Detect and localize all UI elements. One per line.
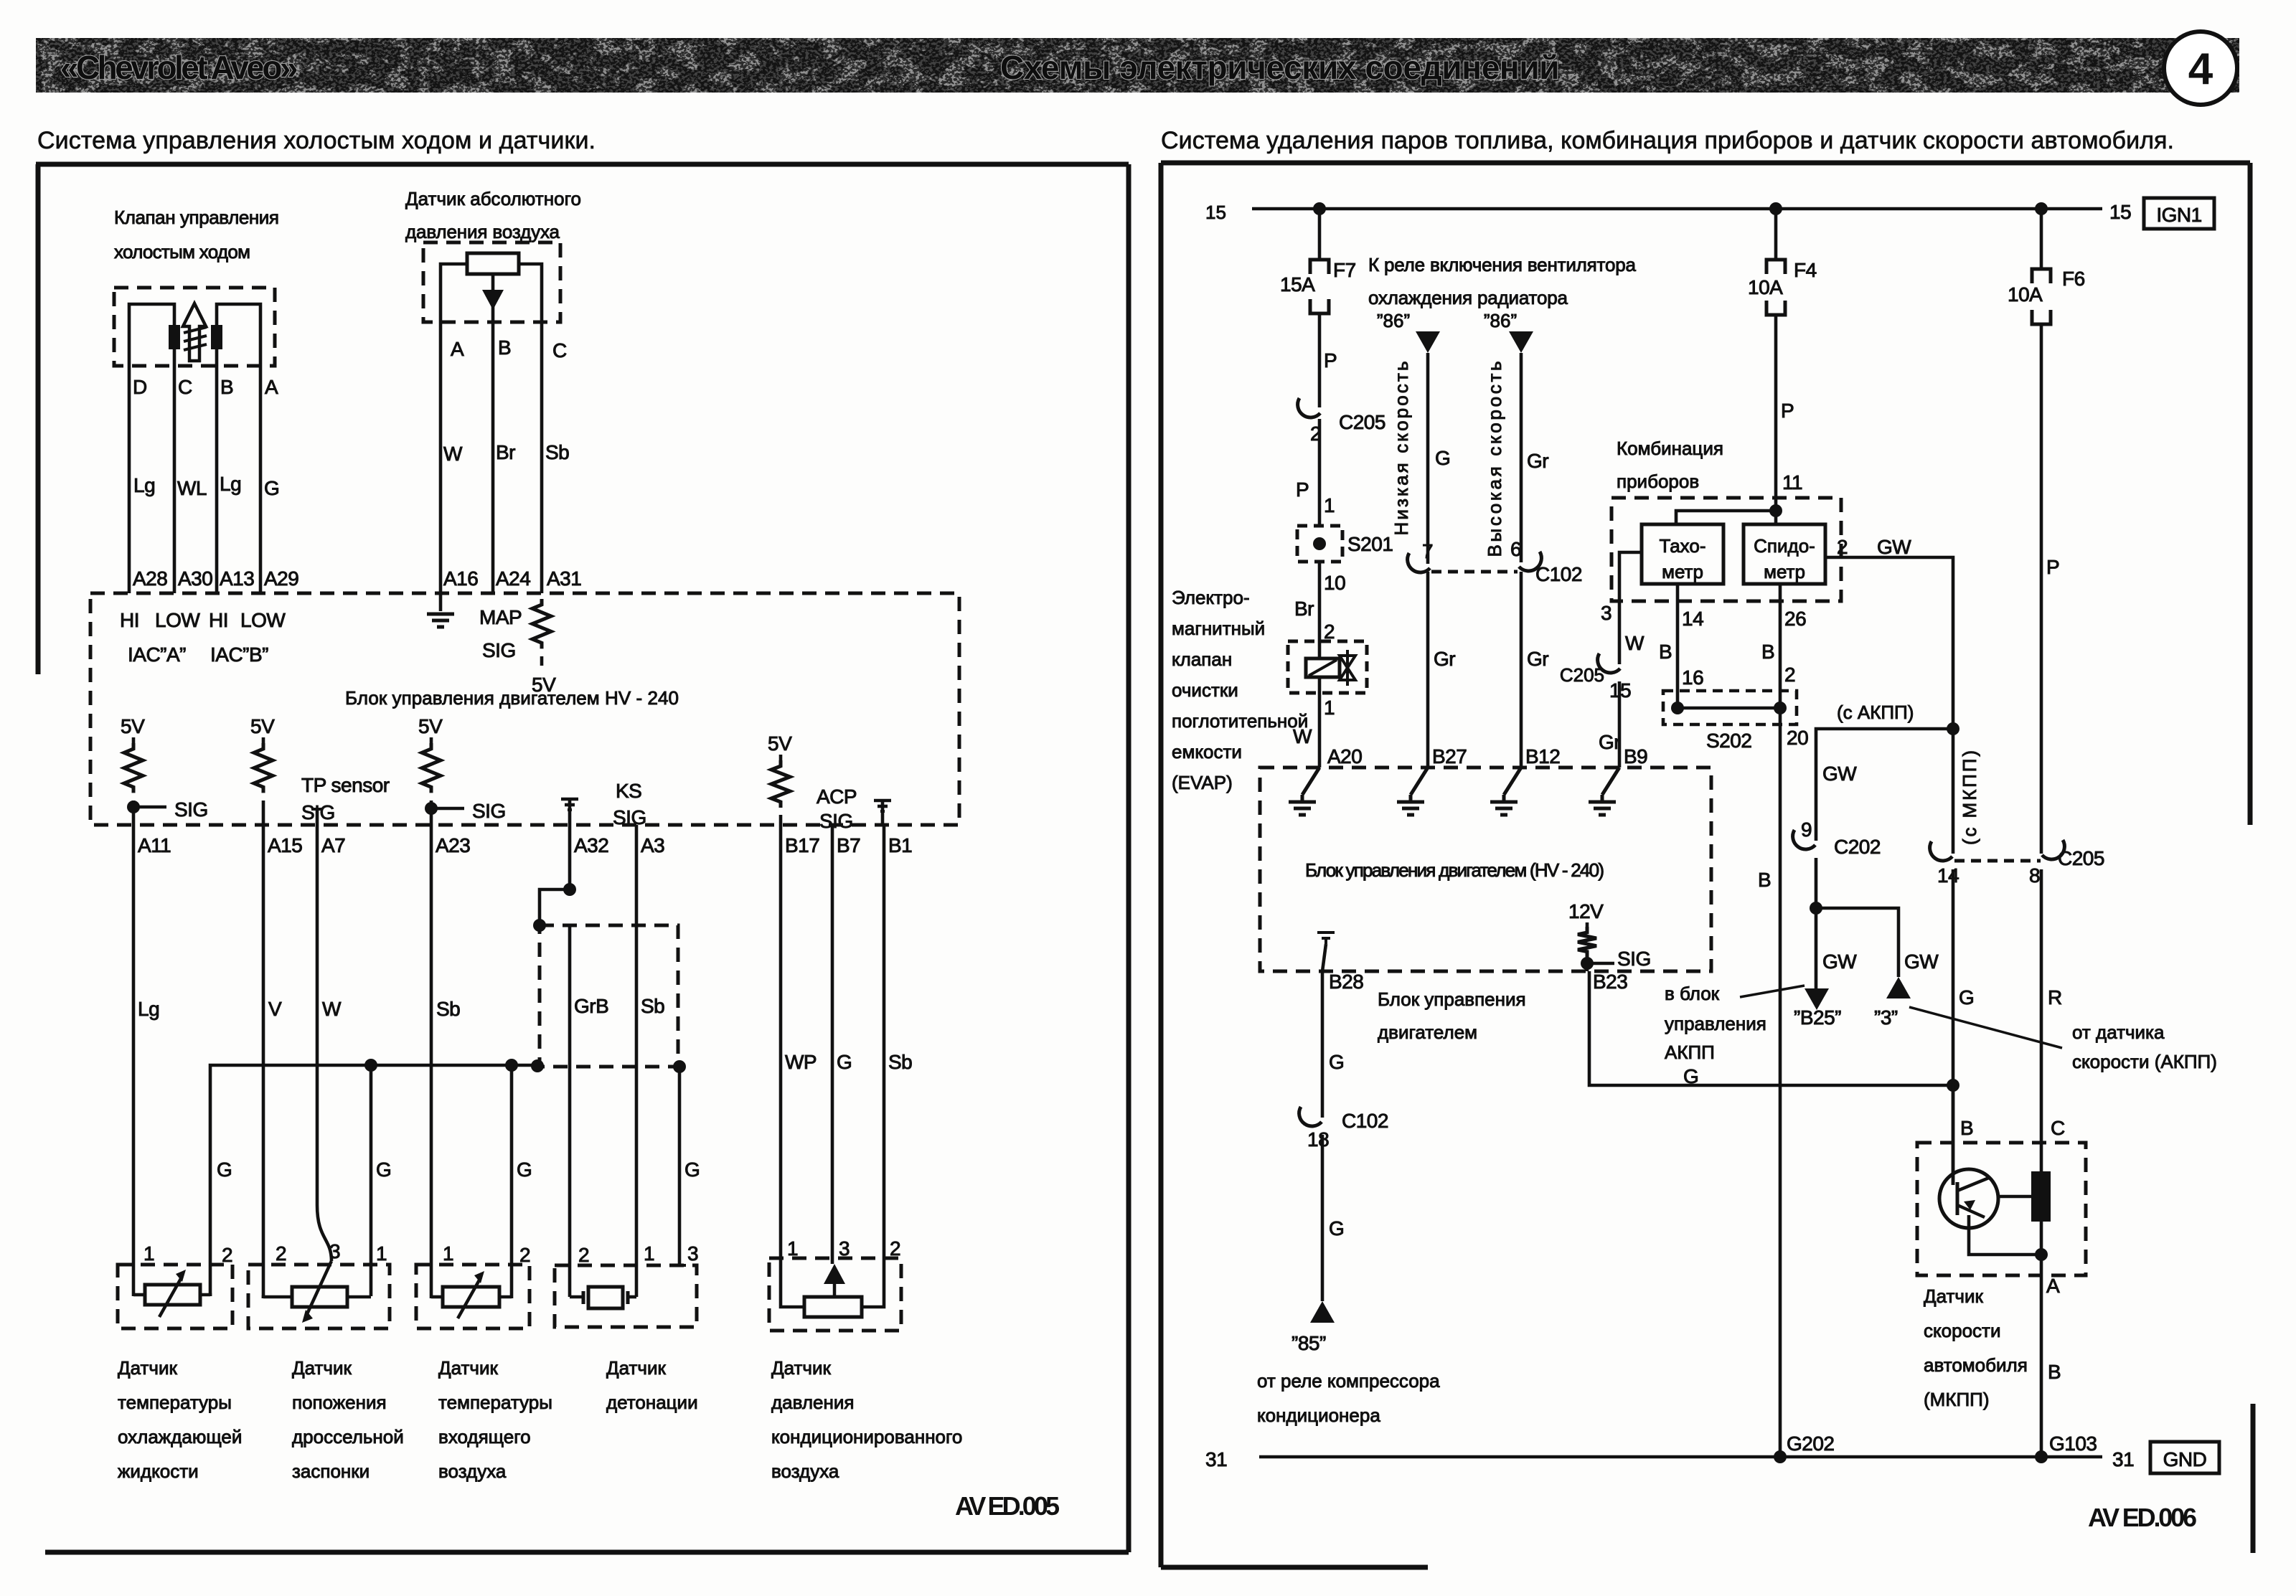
svg-text:Lg: Lg xyxy=(220,473,241,495)
wire G to TP1 xyxy=(370,1065,373,1296)
KS shield box xyxy=(540,925,678,1067)
ground at B1 xyxy=(874,799,891,803)
resistor at A31 xyxy=(532,599,551,648)
wire C202-dn xyxy=(1815,858,1818,908)
sensor ground bus xyxy=(210,1065,537,1296)
wire tacho 3 xyxy=(1619,552,1642,664)
svg-text:Тахо-: Тахо- xyxy=(1660,535,1706,557)
svg-text:2: 2 xyxy=(276,1242,286,1265)
svg-text:Блок управления двигателем HV: Блок управления двигателем HV - 240 xyxy=(345,687,679,709)
svg-text:A13: A13 xyxy=(220,567,254,590)
svg-text:1: 1 xyxy=(1324,697,1335,719)
svg-text:жидкости: жидкости xyxy=(118,1460,199,1482)
svg-text:11: 11 xyxy=(1782,471,1802,494)
junction B23-G xyxy=(1947,1079,1959,1092)
svg-text:GND: GND xyxy=(2163,1448,2207,1470)
svg-text:3: 3 xyxy=(329,1240,340,1262)
svg-text:5V: 5V xyxy=(418,715,443,737)
svg-text:B12: B12 xyxy=(1525,745,1560,768)
svg-text:IGN1: IGN1 xyxy=(2156,204,2201,226)
svg-text:”86”: ”86” xyxy=(1377,310,1410,331)
wire 6-B12 xyxy=(1520,572,1523,768)
svg-text:WP: WP xyxy=(785,1051,817,1073)
wire B17-ACP xyxy=(779,825,783,1306)
svg-text:воздуха: воздуха xyxy=(771,1460,839,1482)
svg-text:C102: C102 xyxy=(1535,563,1582,585)
ACP resistor xyxy=(804,1297,862,1317)
MAP wire B arrow xyxy=(491,274,495,322)
svg-text:B: B xyxy=(1758,869,1771,891)
wire to F4 xyxy=(1774,209,1778,260)
svg-text:C102: C102 xyxy=(1342,1110,1388,1132)
svg-text:C: C xyxy=(552,339,567,362)
junction F7 xyxy=(1313,202,1326,215)
svg-text:WL: WL xyxy=(177,477,207,499)
splice S201 xyxy=(1297,526,1342,562)
svg-text:8: 8 xyxy=(2029,864,2040,887)
svg-text:SIG: SIG xyxy=(482,639,516,661)
svg-text:Датчик: Датчик xyxy=(606,1357,666,1379)
junction KS G xyxy=(673,1060,686,1073)
SIG dot A23 xyxy=(425,802,438,815)
svg-text:GW: GW xyxy=(1822,762,1857,785)
MAP wire C xyxy=(519,264,542,322)
svg-text:давления воздуха: давления воздуха xyxy=(405,221,560,242)
svg-text:18: 18 xyxy=(1307,1128,1329,1151)
svg-text:B28: B28 xyxy=(1329,971,1363,993)
svg-text:Br: Br xyxy=(496,441,515,463)
right frame bottom xyxy=(1161,1565,1428,1570)
svg-text:входящего: входящего xyxy=(438,1426,531,1448)
wire B1-ACP xyxy=(883,825,886,1306)
svg-text:A23: A23 xyxy=(436,834,470,856)
wire tacho 14 xyxy=(1676,584,1680,708)
header band xyxy=(36,38,2239,93)
wire EVAP-A20 xyxy=(1318,677,1322,768)
svg-text:G: G xyxy=(517,1158,532,1181)
wire 11-speedo xyxy=(1774,511,1778,524)
wire F4-11 xyxy=(1774,315,1778,511)
KS element xyxy=(588,1287,623,1308)
fuse F7 xyxy=(1310,260,1329,274)
junction F4 xyxy=(1769,202,1782,215)
ground at A16 xyxy=(439,593,443,611)
CTS box xyxy=(118,1265,232,1328)
svg-text:детонации: детонации xyxy=(606,1392,698,1413)
cluster box xyxy=(1612,498,1841,601)
resistor at A23 xyxy=(430,737,433,743)
arrow B25 xyxy=(1805,988,1829,1010)
ECU HV-240 box xyxy=(90,593,959,825)
IAT wire right xyxy=(499,1295,512,1299)
wire A32 jog xyxy=(540,825,570,925)
wire GW B25 xyxy=(1815,908,1818,988)
svg-text:К реле включения вентилятора: К реле включения вентилятора xyxy=(1368,254,1637,275)
svg-text:SIG: SIG xyxy=(1617,948,1651,970)
ACP wire left xyxy=(781,1306,804,1307)
svg-text:2: 2 xyxy=(222,1244,232,1266)
svg-text:AV ED.005: AV ED.005 xyxy=(955,1491,1060,1521)
svg-text:B9: B9 xyxy=(1624,745,1647,768)
wire A7-TP wiper xyxy=(317,825,331,1261)
wire C-A31 xyxy=(540,322,544,593)
junction A32 xyxy=(563,883,576,896)
svg-text:2: 2 xyxy=(519,1244,530,1266)
svg-text:A24: A24 xyxy=(496,567,530,590)
TP wire right xyxy=(347,1295,371,1299)
resistor at A15 xyxy=(262,737,265,743)
svg-text:G: G xyxy=(264,477,279,499)
svg-text:9: 9 xyxy=(1801,818,1812,841)
svg-text:GW: GW xyxy=(1877,536,1911,558)
left frame bottom xyxy=(45,1550,1129,1555)
svg-text:P: P xyxy=(2046,556,2059,578)
svg-text:F6: F6 xyxy=(2062,268,2085,290)
svg-text:A30: A30 xyxy=(178,567,212,590)
svg-text:A3: A3 xyxy=(641,834,664,856)
ECU box right xyxy=(1260,768,1711,971)
C102 dashed link xyxy=(1431,570,1518,574)
svg-text:магнитный: магнитный xyxy=(1172,618,1265,639)
wire D-A28 xyxy=(128,366,131,593)
VSS pickup xyxy=(2031,1171,2051,1222)
svg-text:«Chevrolet Aveo»: «Chevrolet Aveo» xyxy=(60,49,298,86)
wire C205-B9 xyxy=(1618,681,1622,768)
svg-text:воздуха: воздуха xyxy=(438,1460,507,1482)
ACP wire right xyxy=(862,1306,884,1307)
wire A15-TP xyxy=(262,825,265,1298)
transistor Q1 xyxy=(1939,1169,1998,1228)
svg-text:P: P xyxy=(1296,478,1309,501)
svg-text:холостым ходом: холостым ходом xyxy=(114,241,250,263)
svg-text:охлаждения радиатора: охлаждения радиатора xyxy=(1368,287,1568,308)
junction GW split xyxy=(1810,902,1822,915)
wire akpp branch xyxy=(1816,729,1953,841)
svg-text:C: C xyxy=(178,376,192,398)
svg-text:двигателем: двигателем xyxy=(1378,1021,1477,1043)
svg-text:B: B xyxy=(1761,641,1774,663)
tacho box xyxy=(1642,524,1723,584)
svg-text:очистки: очистки xyxy=(1172,679,1238,701)
wire R down xyxy=(2040,869,2043,1143)
IAC valve box xyxy=(114,288,275,366)
svg-text:A7: A7 xyxy=(321,834,345,856)
IAC spring arrow xyxy=(183,303,206,361)
wire G to KS3 xyxy=(678,1067,682,1265)
junction emitter xyxy=(2035,1248,2048,1261)
wire G-B xyxy=(1952,1085,1955,1185)
connector C205-8 xyxy=(2042,840,2064,859)
svg-text:A28: A28 xyxy=(133,567,167,590)
wire A-A29 xyxy=(259,366,263,593)
svg-text:3: 3 xyxy=(1601,602,1612,624)
TP resistor xyxy=(292,1287,347,1307)
IAT box xyxy=(416,1265,530,1328)
svg-text:31: 31 xyxy=(1205,1448,1227,1470)
svg-text:от датчика: от датчика xyxy=(2072,1021,2165,1043)
CTS wire right xyxy=(200,1295,210,1296)
svg-text:Sb: Sb xyxy=(436,998,460,1020)
wire A3-KS xyxy=(635,825,639,1297)
fuse F4 xyxy=(1766,260,1785,274)
wire A11-CTS xyxy=(132,825,136,1296)
svg-text:дроссельной: дроссельной xyxy=(292,1426,404,1448)
wire C205-S201 xyxy=(1318,419,1322,526)
svg-text:Датчик: Датчик xyxy=(292,1357,352,1379)
MAP box xyxy=(423,242,560,322)
svg-text:10A: 10A xyxy=(1748,276,1783,298)
svg-text:26: 26 xyxy=(1784,608,1806,630)
arrow 3 xyxy=(1886,977,1911,998)
IAT resistor xyxy=(443,1287,499,1307)
svg-text:2: 2 xyxy=(1324,620,1335,643)
svg-text:HI: HI xyxy=(120,609,139,631)
svg-text:20: 20 xyxy=(1787,727,1808,749)
TP box xyxy=(248,1265,390,1328)
svg-text:G: G xyxy=(376,1158,391,1181)
junction KS box corner xyxy=(531,1059,544,1072)
svg-text:приборов: приборов xyxy=(1617,471,1699,492)
wire speedo 26 xyxy=(1779,584,1782,708)
junction G202 xyxy=(1774,1450,1787,1463)
svg-text:5V: 5V xyxy=(768,732,792,755)
svg-text:W: W xyxy=(443,443,463,465)
svg-text:LOW: LOW xyxy=(155,609,200,631)
svg-text:GrB: GrB xyxy=(574,995,608,1017)
junction KS box xyxy=(533,919,546,932)
svg-text:B: B xyxy=(220,376,233,398)
svg-text:Датчик: Датчик xyxy=(771,1357,831,1379)
svg-text:поглотитепьной: поглотитепьной xyxy=(1172,710,1308,732)
svg-text:5V: 5V xyxy=(250,715,275,737)
svg-text:B17: B17 xyxy=(785,834,819,856)
svg-text:31: 31 xyxy=(2112,1448,2134,1470)
wire B23 xyxy=(1589,971,1953,1085)
IAC coil loop right xyxy=(217,304,260,366)
svg-text:15: 15 xyxy=(2109,201,2131,223)
svg-text:G202: G202 xyxy=(1787,1432,1835,1455)
svg-text:HI: HI xyxy=(209,609,228,631)
ACP wiper xyxy=(824,1264,845,1284)
svg-text:3: 3 xyxy=(839,1237,850,1260)
junction 11 xyxy=(1769,504,1782,517)
KS wire right xyxy=(628,1295,636,1299)
svg-text:AV ED.006: AV ED.006 xyxy=(2088,1503,2197,1532)
svg-text:C: C xyxy=(2051,1117,2065,1139)
svg-text:G103: G103 xyxy=(2049,1432,2097,1455)
svg-text:A: A xyxy=(2046,1275,2060,1297)
svg-text:B27: B27 xyxy=(1432,745,1467,768)
svg-text:P: P xyxy=(1324,349,1337,372)
VSS box xyxy=(1917,1143,2086,1275)
svg-text:Система удаления паров топлива: Система удаления паров топлива, комбинац… xyxy=(1161,127,2174,154)
page number circle xyxy=(2164,32,2237,105)
svg-text:14: 14 xyxy=(1937,864,1959,887)
svg-text:температуры: температуры xyxy=(118,1392,232,1413)
svg-text:G: G xyxy=(217,1158,232,1181)
bus 31 xyxy=(1259,1455,2102,1459)
svg-text:Клапан управления: Клапан управления xyxy=(114,207,279,228)
svg-text:(EVAP): (EVAP) xyxy=(1172,772,1233,793)
EVAP box xyxy=(1288,641,1367,693)
svg-text:B: B xyxy=(1659,641,1672,663)
EVAP solenoid xyxy=(1306,658,1340,677)
speedo box xyxy=(1744,524,1825,584)
svg-text:скорости: скорости xyxy=(1924,1320,2000,1341)
svg-text:автомобиля: автомобиля xyxy=(1924,1354,2028,1376)
svg-text:10A: 10A xyxy=(2008,283,2043,306)
svg-text:TP sensor: TP sensor xyxy=(301,774,390,796)
svg-text:”3”: ”3” xyxy=(1874,1006,1898,1029)
svg-text:F7: F7 xyxy=(1333,259,1356,281)
svg-text:G: G xyxy=(1329,1051,1344,1073)
wire 11-tacho xyxy=(1676,511,1776,524)
wire A-G103 xyxy=(2040,1275,2043,1457)
wire 20-G202 xyxy=(1779,708,1782,1457)
svg-text:A32: A32 xyxy=(574,834,608,856)
svg-text:6: 6 xyxy=(1510,538,1521,560)
wire A-A16 xyxy=(439,322,443,593)
svg-text:IAC”A”: IAC”A” xyxy=(128,643,186,666)
svg-text:Датчик: Датчик xyxy=(1924,1285,1983,1307)
svg-text:G: G xyxy=(837,1051,852,1073)
svg-text:”B25”: ”B25” xyxy=(1794,1006,1841,1029)
connector C205-2 xyxy=(1298,398,1320,417)
junction IAT G xyxy=(505,1059,518,1072)
svg-text:2: 2 xyxy=(1837,536,1848,558)
wire speedo GW xyxy=(1825,557,1953,854)
svg-text:Sb: Sb xyxy=(641,995,664,1017)
svg-text:B7: B7 xyxy=(837,834,860,856)
svg-text:1: 1 xyxy=(644,1242,654,1265)
resistor at B17 xyxy=(779,755,783,760)
TP wire left xyxy=(263,1297,292,1298)
svg-text:SIG: SIG xyxy=(174,798,208,821)
svg-text:A31: A31 xyxy=(547,567,581,590)
svg-text:4: 4 xyxy=(2188,44,2213,94)
svg-text:15: 15 xyxy=(1205,202,1226,223)
svg-text:1: 1 xyxy=(1324,494,1335,516)
svg-text:C205: C205 xyxy=(2058,847,2104,869)
svg-text:”86”: ”86” xyxy=(1484,310,1517,331)
svg-text:5V: 5V xyxy=(121,715,145,737)
left frame right xyxy=(1126,164,1131,1552)
svg-text:16: 16 xyxy=(1682,666,1703,689)
svg-text:SIG: SIG xyxy=(472,800,506,822)
svg-text:LOW: LOW xyxy=(240,609,286,631)
svg-text:кондиционированного: кондиционированного xyxy=(771,1426,962,1448)
bus 15 xyxy=(1252,207,2102,211)
arrow 86 b xyxy=(1509,331,1533,353)
IGN1 box xyxy=(2144,198,2214,229)
right frame top xyxy=(1161,161,2250,166)
svg-text:кондиционера: кондиционера xyxy=(1257,1404,1380,1426)
svg-text:B: B xyxy=(498,336,511,359)
svg-text:14: 14 xyxy=(1682,608,1703,630)
wire 18-85 xyxy=(1321,1135,1325,1301)
callout from 3 xyxy=(1909,1007,2062,1048)
svg-text:метр: метр xyxy=(1662,561,1703,582)
ground at A20 xyxy=(1302,768,1319,795)
svg-text:P: P xyxy=(1781,400,1794,422)
svg-text:SIG: SIG xyxy=(819,810,853,832)
svg-text:Gr: Gr xyxy=(1434,648,1455,670)
svg-text:B23: B23 xyxy=(1593,971,1627,993)
header band blotches xyxy=(36,38,2239,93)
connector C205-14 xyxy=(1930,841,1952,861)
svg-text:A11: A11 xyxy=(138,834,171,856)
svg-text:GW: GW xyxy=(1822,950,1857,973)
svg-text:от реле компрессора: от реле компрессора xyxy=(1257,1370,1440,1392)
svg-text:ACP: ACP xyxy=(817,785,857,808)
svg-text:Lg: Lg xyxy=(138,998,159,1020)
svg-text:12V: 12V xyxy=(1568,900,1604,922)
svg-text:SIG: SIG xyxy=(613,806,646,828)
svg-text:15A: 15A xyxy=(1280,273,1315,296)
wire G to IAT2 xyxy=(510,1065,514,1298)
svg-text:R: R xyxy=(2048,986,2062,1009)
svg-text:2: 2 xyxy=(890,1237,900,1260)
svg-text:Gr: Gr xyxy=(1527,648,1548,670)
svg-text:10: 10 xyxy=(1324,572,1345,594)
svg-text:C205: C205 xyxy=(1339,411,1385,433)
svg-text:G: G xyxy=(1435,447,1450,469)
svg-text:C205: C205 xyxy=(1560,664,1604,686)
svg-text:заспонки: заспонки xyxy=(292,1460,370,1482)
svg-text:1: 1 xyxy=(376,1242,387,1265)
KS wire left xyxy=(570,1295,583,1299)
svg-text:F4: F4 xyxy=(1794,259,1817,281)
svg-text:давления: давления xyxy=(771,1392,854,1413)
IAC coil B xyxy=(211,325,222,349)
callout to B25 xyxy=(1740,986,1805,997)
svg-text:Комбинация: Комбинация xyxy=(1617,438,1723,459)
svg-text:GW: GW xyxy=(1904,950,1939,973)
svg-text:(с АКПП): (с АКПП) xyxy=(1837,702,1914,723)
wire to F7 xyxy=(1318,209,1322,260)
svg-text:IAC”B”: IAC”B” xyxy=(210,643,268,666)
junction TP G xyxy=(364,1059,377,1072)
svg-text:S202: S202 xyxy=(1706,729,1751,752)
IAC coil loop left xyxy=(129,304,174,366)
svg-text:W: W xyxy=(1625,632,1645,654)
svg-text:метр: метр xyxy=(1764,561,1805,582)
svg-text:в блок: в блок xyxy=(1665,983,1720,1004)
CTS resistor xyxy=(145,1285,200,1305)
wire GrB xyxy=(568,925,572,1297)
svg-text:D: D xyxy=(133,376,147,398)
junction G103 xyxy=(2035,1450,2048,1463)
IAT wire left xyxy=(431,1295,443,1299)
connector C205-15 xyxy=(1598,653,1620,673)
svg-text:2: 2 xyxy=(1784,664,1795,686)
svg-text:B1: B1 xyxy=(888,834,912,856)
resistor at A11 xyxy=(132,737,136,743)
wire GW split xyxy=(1816,908,1899,977)
KS box xyxy=(555,1265,697,1327)
ground at B27 xyxy=(1411,768,1428,795)
svg-text:KS: KS xyxy=(616,780,641,802)
TP wiper xyxy=(306,1261,331,1316)
svg-text:Спидо-: Спидо- xyxy=(1754,535,1815,557)
left frame top xyxy=(36,162,1129,167)
IAC coil C xyxy=(169,325,180,349)
svg-text:емкости: емкости xyxy=(1172,741,1242,762)
chassis sym B28 xyxy=(1317,931,1335,934)
wire B7-ACP xyxy=(831,825,834,1264)
C205 dashed link xyxy=(1954,859,2041,863)
svg-text:S201: S201 xyxy=(1347,533,1393,555)
